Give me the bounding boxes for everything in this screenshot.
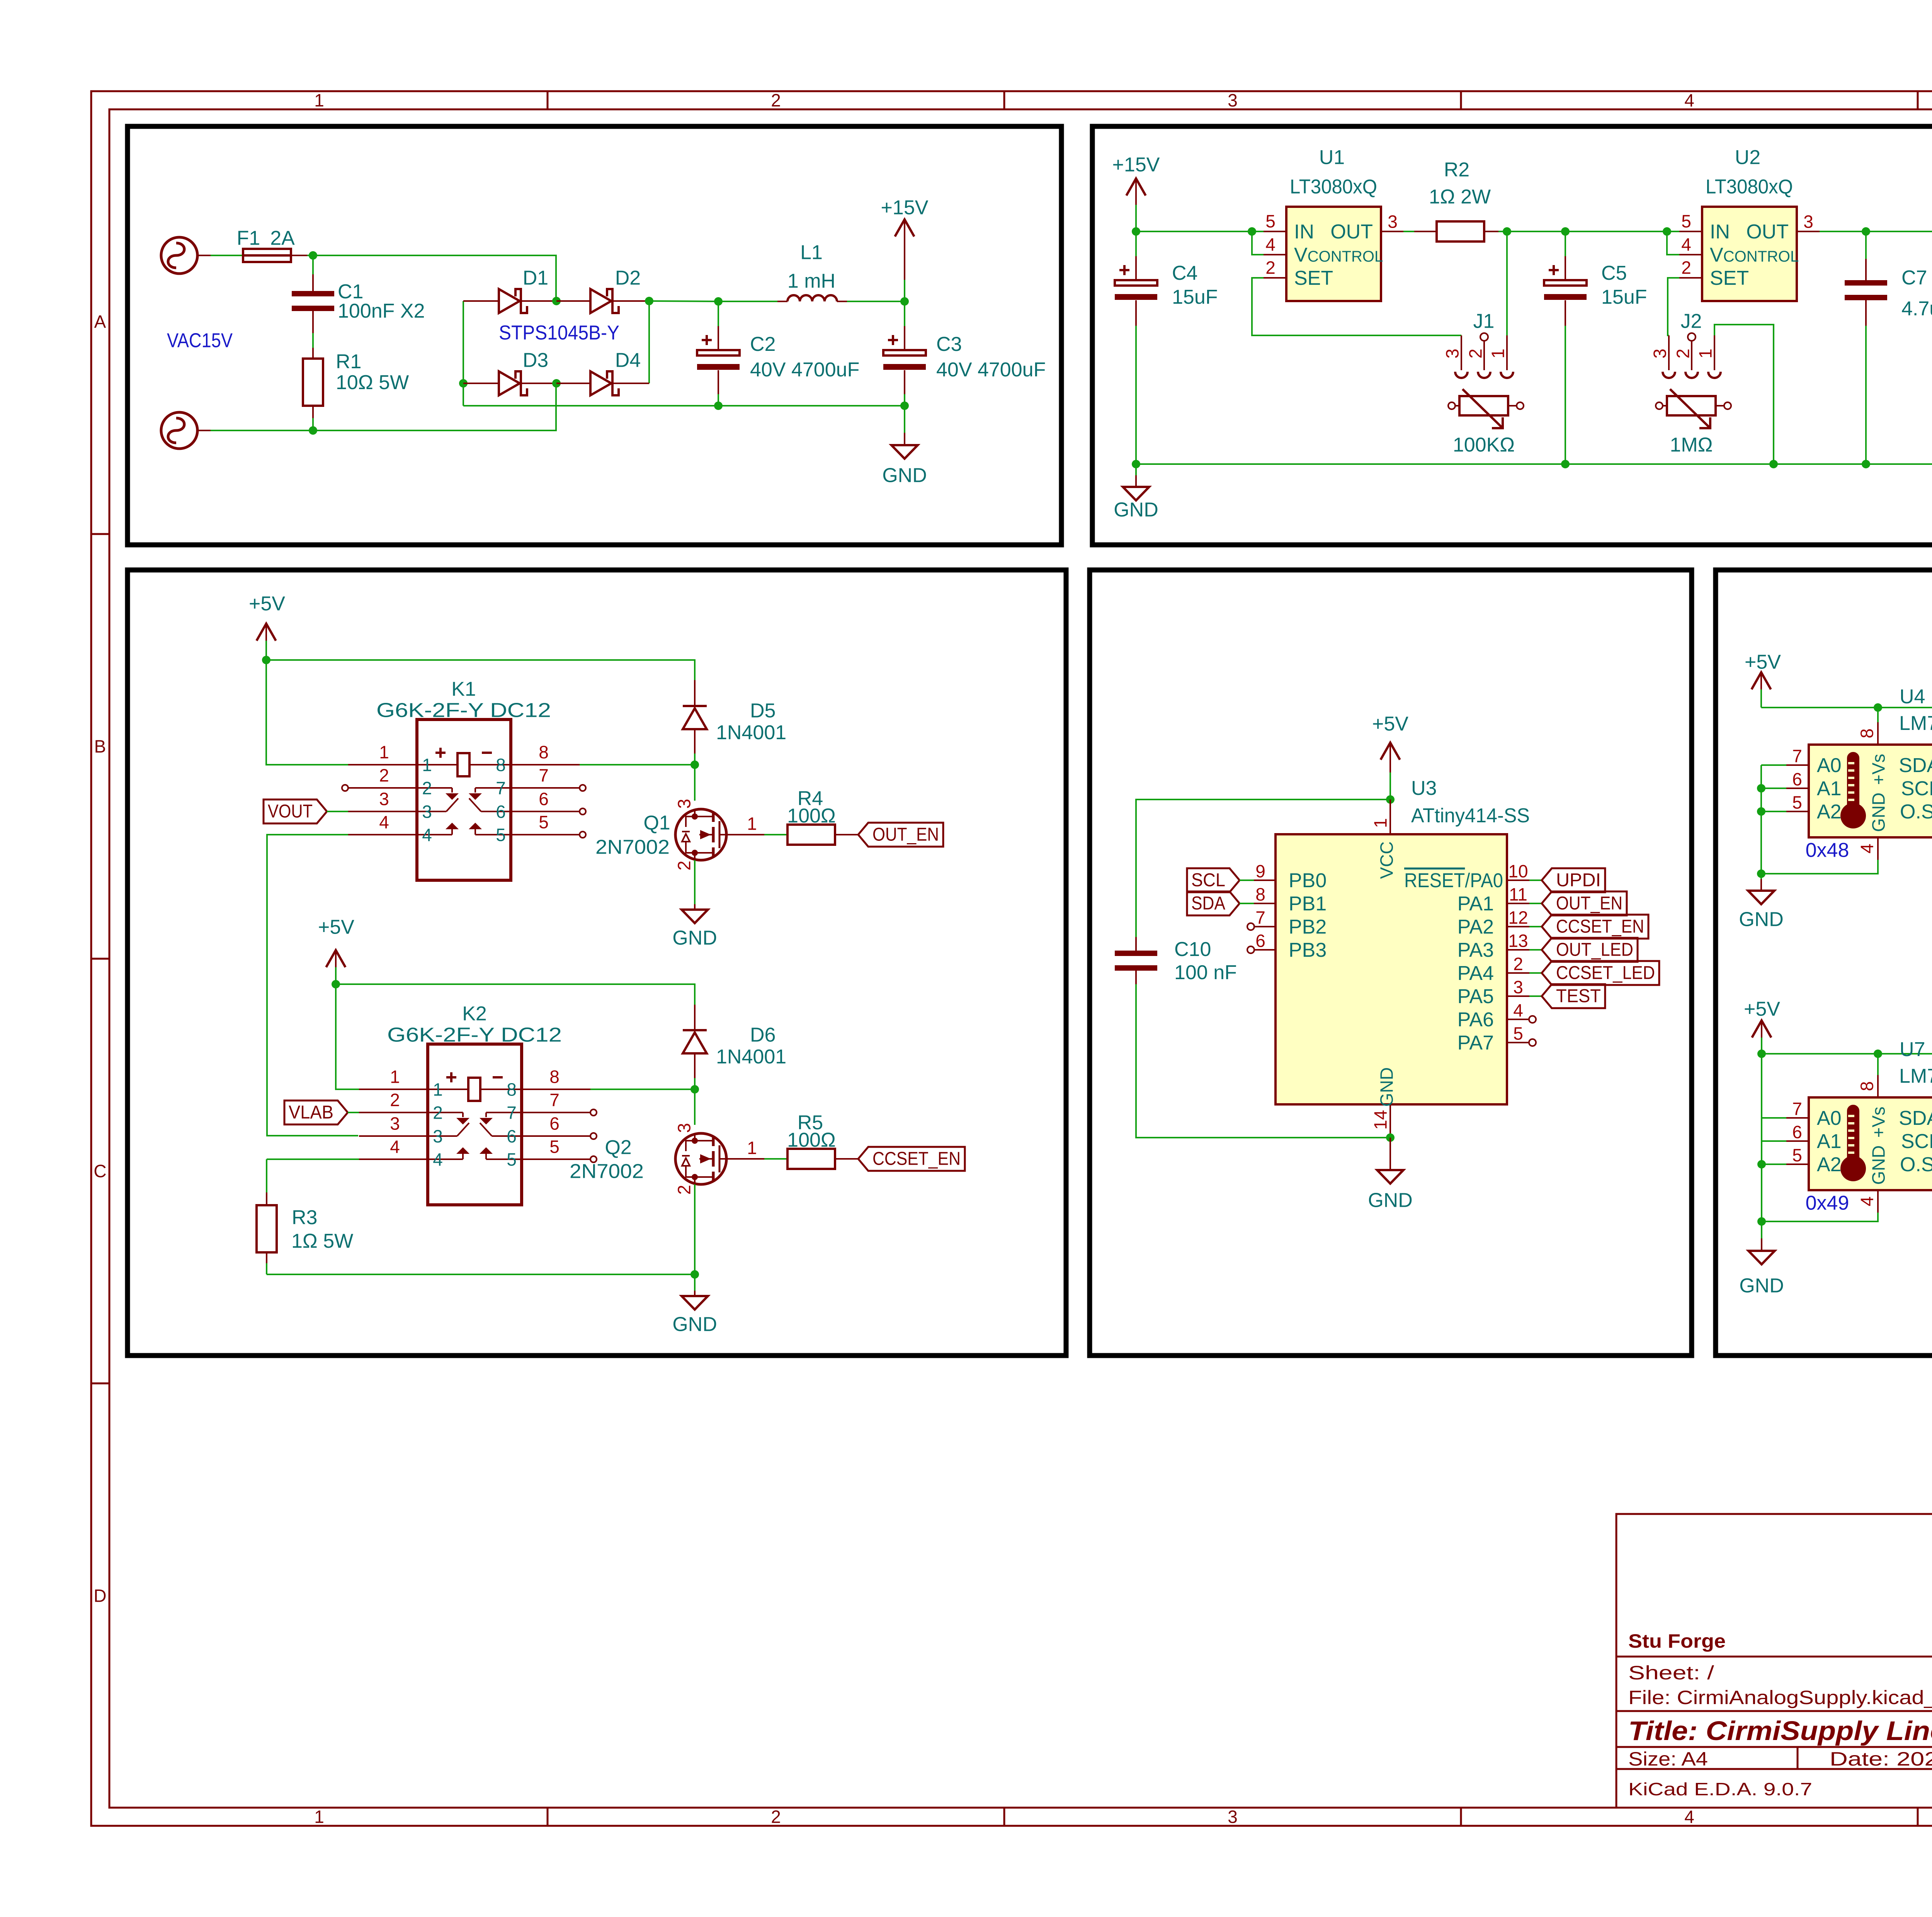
svg-text:3: 3 — [1650, 349, 1670, 359]
wire — [313, 383, 556, 430]
svg-text:GND: GND — [1739, 908, 1784, 931]
svg-text:3: 3 — [379, 789, 389, 809]
junction — [1757, 807, 1765, 816]
svg-text:PA7: PA7 — [1458, 1032, 1494, 1054]
svg-text:GND: GND — [1377, 1067, 1397, 1107]
svg-text:2: 2 — [1466, 349, 1486, 359]
svg-text:4: 4 — [379, 812, 389, 832]
svg-text:File: CirmiAnalogSupply.kicad_: File: CirmiAnalogSupply.kicad_sch — [1628, 1687, 1932, 1708]
junction — [309, 426, 317, 435]
svg-text:SET: SET — [1710, 267, 1749, 289]
power symbol +5V — [318, 916, 354, 984]
svg-text:0x48: 0x48 — [1806, 839, 1849, 862]
svg-text:5: 5 — [549, 1137, 560, 1157]
svg-text:3: 3 — [1803, 212, 1813, 232]
net label SCL — [1187, 868, 1240, 892]
svg-text:40V 4700uF: 40V 4700uF — [936, 359, 1046, 381]
svg-text:6: 6 — [496, 802, 506, 822]
svg-text:1: 1 — [747, 814, 757, 834]
svg-text:D1: D1 — [523, 267, 548, 289]
svg-text:7: 7 — [496, 778, 506, 798]
svg-text:C: C — [94, 1161, 106, 1181]
temperature sensor U7 LM75B — [1786, 1038, 1932, 1214]
svg-text:2: 2 — [1673, 349, 1693, 359]
wire — [336, 984, 695, 1005]
svg-text:D: D — [94, 1586, 106, 1606]
wire — [336, 984, 359, 1089]
svg-text:G6K-2F-Y DC12: G6K-2F-Y DC12 — [376, 699, 551, 722]
svg-text:Date: 2026-02-10: Date: 2026-02-10 — [1830, 1748, 1932, 1770]
svg-text:4: 4 — [1857, 1196, 1877, 1206]
svg-text:KiCad E.D.A. 9.0.7: KiCad E.D.A. 9.0.7 — [1628, 1779, 1812, 1799]
net label VOUT — [264, 799, 327, 823]
svg-text:3: 3 — [674, 799, 694, 809]
net label OUT_LED — [1542, 938, 1638, 962]
wire — [327, 811, 348, 812]
wire — [718, 301, 777, 302]
svg-text:1: 1 — [422, 755, 432, 775]
resistor R5 100R — [726, 1112, 858, 1169]
junction — [552, 297, 561, 305]
svg-text:LM75B: LM75B — [1899, 1065, 1932, 1087]
wire — [266, 1159, 267, 1192]
wire — [463, 405, 905, 407]
open pin circles K1 — [342, 785, 348, 791]
wire — [348, 1112, 359, 1113]
svg-text:6: 6 — [1255, 931, 1265, 951]
junction — [1503, 227, 1511, 236]
wire — [1136, 463, 1932, 465]
junction — [690, 760, 699, 769]
svg-text:14: 14 — [1371, 1110, 1391, 1129]
net label UPDI — [1542, 868, 1605, 892]
svg-text:1: 1 — [314, 90, 324, 111]
svg-text:1: 1 — [433, 1080, 443, 1100]
svg-text:3: 3 — [390, 1114, 400, 1134]
svg-text:CCSET_EN: CCSET_EN — [1556, 916, 1644, 937]
svg-text:3: 3 — [674, 1123, 694, 1133]
svg-text:GND: GND — [672, 927, 717, 949]
junction — [1248, 227, 1256, 236]
svg-text:7: 7 — [539, 765, 549, 786]
svg-text:OUT_EN: OUT_EN — [1556, 893, 1622, 913]
net label OUT_EN — [1542, 891, 1627, 915]
section box temperature sensors — [1716, 570, 1932, 1356]
wire — [590, 1089, 695, 1090]
svg-text:2: 2 — [422, 778, 432, 798]
svg-text:C3: C3 — [936, 333, 962, 356]
wire — [1136, 231, 1264, 232]
svg-text:Q2: Q2 — [605, 1136, 631, 1159]
junction — [332, 980, 340, 988]
svg-text:8: 8 — [1857, 1081, 1877, 1091]
net label CCSET_LED — [1542, 961, 1659, 985]
svg-text:VOUT: VOUT — [268, 801, 313, 822]
wire — [1667, 231, 1679, 255]
svg-text:PA3: PA3 — [1458, 939, 1494, 961]
svg-text:2: 2 — [771, 1807, 781, 1827]
svg-text:PB3: PB3 — [1289, 939, 1327, 961]
wire — [1762, 1140, 1786, 1142]
junction — [900, 401, 909, 410]
svg-text:F1: F1 — [237, 227, 260, 250]
svg-text:CCSET_LED: CCSET_LED — [1556, 963, 1655, 983]
wire — [267, 835, 358, 1136]
svg-text:GND: GND — [1869, 793, 1889, 832]
svg-text:1: 1 — [1696, 349, 1716, 359]
junction — [714, 401, 723, 410]
ground — [882, 406, 927, 487]
svg-text:OUT_EN: OUT_EN — [872, 824, 939, 845]
svg-text:2: 2 — [433, 1103, 443, 1123]
svg-text:15uF: 15uF — [1601, 286, 1647, 308]
svg-text:2A: 2A — [270, 227, 295, 250]
wire — [266, 660, 695, 680]
ground — [1114, 464, 1158, 521]
svg-text:TEST: TEST — [1556, 986, 1601, 1006]
svg-text:6: 6 — [539, 789, 549, 809]
svg-text:3: 3 — [433, 1126, 443, 1146]
diode D6 1N4001 — [683, 1005, 786, 1089]
wire — [211, 430, 313, 431]
junction — [1769, 460, 1778, 468]
svg-text:SET: SET — [1294, 267, 1333, 289]
svg-text:10Ω 5W: 10Ω 5W — [336, 371, 409, 394]
svg-text:UPDI: UPDI — [1556, 870, 1601, 890]
capacitor C1 100nF X2 — [292, 255, 425, 348]
wire — [649, 301, 718, 301]
svg-text:3: 3 — [1228, 1807, 1238, 1827]
svg-text:3: 3 — [1513, 977, 1523, 997]
svg-text:1: 1 — [747, 1138, 757, 1158]
svg-text:1Ω 2W: 1Ω 2W — [1429, 186, 1491, 208]
junction — [1874, 703, 1882, 712]
svg-text:2: 2 — [1681, 258, 1691, 278]
wire — [1877, 1054, 1879, 1075]
svg-text:PB0: PB0 — [1289, 869, 1327, 892]
svg-text:2: 2 — [1513, 954, 1523, 974]
svg-text:15uF: 15uF — [1172, 286, 1218, 308]
svg-text:100Ω: 100Ω — [787, 805, 836, 827]
svg-text:100KΩ: 100KΩ — [1453, 434, 1515, 456]
transistor Q1 2N7002 — [674, 799, 726, 871]
relay K1 G6K-2F-Y DC12 — [348, 678, 580, 880]
svg-text:5: 5 — [496, 825, 506, 845]
junction — [645, 297, 653, 305]
svg-text:8: 8 — [507, 1080, 517, 1100]
junction — [552, 379, 561, 388]
svg-text:1: 1 — [390, 1067, 400, 1087]
junction — [1132, 227, 1140, 236]
title block — [1616, 1514, 1932, 1808]
wire — [1529, 903, 1542, 904]
junction — [1757, 784, 1765, 793]
net label TEST — [1542, 984, 1605, 1008]
temperature sensor U4 LM75B — [1786, 685, 1932, 862]
svg-text:VAC15V: VAC15V — [167, 330, 233, 352]
wire — [1820, 231, 1932, 232]
junction — [1874, 1050, 1882, 1058]
svg-text:4: 4 — [1265, 235, 1276, 255]
relay K2 G6K-2F-Y DC12 — [359, 1003, 590, 1205]
svg-text:6: 6 — [1792, 769, 1802, 789]
net label CCSET_EN — [1542, 915, 1648, 939]
svg-text:GND: GND — [1368, 1189, 1413, 1212]
svg-text:1N4001: 1N4001 — [716, 1046, 786, 1068]
wire — [1507, 231, 1679, 232]
wire — [1240, 879, 1254, 881]
svg-text:PA4: PA4 — [1458, 962, 1494, 985]
svg-text:U3: U3 — [1411, 777, 1437, 799]
svg-text:G6K-2F-Y DC12: G6K-2F-Y DC12 — [387, 1024, 562, 1046]
section box MCU — [1090, 570, 1692, 1356]
svg-text:C10: C10 — [1174, 938, 1211, 961]
svg-text:1MΩ: 1MΩ — [1670, 434, 1713, 456]
svg-text:5: 5 — [1265, 211, 1276, 231]
wire — [1240, 903, 1254, 904]
svg-text:2: 2 — [379, 765, 389, 786]
svg-text:7: 7 — [1792, 1099, 1802, 1119]
wire — [267, 1158, 359, 1160]
junction — [900, 297, 909, 306]
svg-text:12: 12 — [1508, 908, 1528, 928]
svg-text:5: 5 — [1513, 1024, 1523, 1044]
svg-text:A2: A2 — [1817, 801, 1842, 823]
svg-text:OUT_LED: OUT_LED — [1556, 939, 1633, 960]
junction — [262, 656, 270, 664]
svg-text:8: 8 — [1857, 728, 1877, 738]
open pin circles K2 — [590, 1109, 597, 1116]
wire — [1252, 231, 1264, 255]
ground — [1368, 1138, 1413, 1212]
svg-text:+15V: +15V — [881, 197, 929, 219]
svg-text:2: 2 — [390, 1090, 400, 1110]
junction — [1386, 795, 1395, 804]
wire — [1529, 879, 1542, 881]
junction — [690, 1270, 699, 1279]
MCU U3 ATtiny414-SS — [1247, 777, 1536, 1138]
svg-text:4: 4 — [433, 1150, 443, 1170]
transistor Q2 2N7002 — [674, 1123, 726, 1195]
resistor R2 1R 2W — [1403, 159, 1507, 242]
svg-text:8: 8 — [549, 1067, 560, 1087]
ground — [672, 860, 717, 949]
svg-text:4: 4 — [1684, 90, 1694, 111]
wire — [1136, 799, 1390, 937]
svg-text:A1: A1 — [1817, 1130, 1842, 1153]
inductor L1 1mH — [718, 242, 905, 301]
diode D3 — [463, 349, 556, 395]
resistor R3 1R 5W — [257, 1192, 353, 1274]
wire — [291, 255, 307, 256]
wire — [211, 255, 243, 256]
svg-text:40V 4700uF: 40V 4700uF — [750, 359, 859, 381]
svg-text:A0: A0 — [1817, 754, 1842, 777]
capacitor C7 4.7uF — [1845, 231, 1932, 464]
wire — [1529, 972, 1542, 974]
diode D1 — [463, 267, 556, 313]
wire — [1761, 764, 1786, 766]
svg-text:SDA: SDA — [1899, 1107, 1932, 1129]
svg-text:Stu Forge: Stu Forge — [1628, 1630, 1726, 1652]
wire — [1529, 995, 1542, 997]
svg-text:100 nF: 100 nF — [1174, 961, 1237, 984]
junction — [1757, 1217, 1766, 1226]
svg-text:9: 9 — [1255, 861, 1265, 881]
svg-text:SDA: SDA — [1191, 893, 1225, 913]
svg-text:5: 5 — [1792, 793, 1802, 813]
wire — [694, 765, 696, 801]
junction — [1757, 869, 1765, 878]
wire — [1761, 811, 1786, 812]
capacitor C10 100nF — [1115, 799, 1390, 1138]
svg-text:GND: GND — [882, 464, 927, 487]
svg-text:PA6: PA6 — [1458, 1009, 1494, 1031]
svg-text:PA1: PA1 — [1458, 893, 1494, 915]
svg-text:L1: L1 — [800, 242, 823, 264]
capacitor C5 15uF — [1544, 231, 1647, 464]
svg-text:LT3080xQ: LT3080xQ — [1706, 176, 1793, 198]
junction — [1757, 1050, 1766, 1058]
svg-text:4: 4 — [1684, 1807, 1694, 1827]
wire — [694, 1184, 696, 1274]
wire — [1760, 765, 1762, 874]
svg-text:1Ω 5W: 1Ω 5W — [291, 1230, 353, 1252]
svg-text:Q1: Q1 — [643, 812, 670, 834]
svg-text:LT3080xQ: LT3080xQ — [1290, 176, 1377, 198]
svg-text:A0: A0 — [1817, 1107, 1842, 1129]
svg-text:2N7002: 2N7002 — [595, 836, 670, 859]
fuse F1 2A — [237, 227, 295, 262]
wire — [1761, 707, 1932, 708]
AC source V2 — [161, 412, 211, 449]
svg-text:11: 11 — [1509, 885, 1527, 905]
svg-text:ATtiny414-SS: ATtiny414-SS — [1411, 805, 1530, 827]
svg-text:OUT: OUT — [1330, 221, 1373, 243]
wire — [1762, 1117, 1786, 1119]
svg-text:1 mH: 1 mH — [787, 270, 835, 293]
svg-text:GND: GND — [1114, 499, 1158, 521]
svg-text:+5V: +5V — [1744, 998, 1780, 1021]
capacitor C4 15uF — [1115, 231, 1218, 464]
power symbol +15V — [881, 197, 929, 301]
wire — [1877, 708, 1879, 722]
svg-text:4: 4 — [1857, 844, 1877, 854]
svg-text:GND: GND — [1739, 1275, 1784, 1297]
power symbol +5V — [1744, 998, 1780, 1054]
wire — [694, 1089, 696, 1125]
svg-text:5: 5 — [507, 1150, 517, 1170]
svg-text:A: A — [94, 312, 106, 332]
svg-text:Title: CirmiSupply Linear 10: Title: CirmiSupply Linear 10 — [1628, 1716, 1932, 1746]
svg-text:PB2: PB2 — [1289, 916, 1327, 938]
junction — [1862, 460, 1870, 468]
svg-text:2: 2 — [674, 861, 694, 871]
wire — [1506, 231, 1508, 335]
wire — [1762, 1053, 1932, 1055]
wire — [1761, 860, 1878, 874]
wire — [1761, 1054, 1762, 1221]
svg-text:2N7002: 2N7002 — [570, 1160, 644, 1183]
wire — [1136, 984, 1390, 1138]
AC source V1 — [161, 237, 211, 274]
wire — [267, 1274, 695, 1275]
section box regulators — [1092, 126, 1932, 545]
potentiometer 100KΩ — [1448, 389, 1524, 456]
junction — [1862, 227, 1870, 236]
junction — [309, 251, 317, 260]
net label SDA — [1187, 891, 1240, 915]
svg-text:A2: A2 — [1817, 1153, 1842, 1176]
ground — [672, 1274, 717, 1336]
power symbol +15V — [1112, 154, 1160, 231]
wire — [847, 301, 905, 302]
svg-text:Size: A4: Size: A4 — [1628, 1748, 1708, 1770]
svg-text:0x49: 0x49 — [1806, 1192, 1849, 1214]
section box AC input — [128, 126, 1061, 545]
svg-text:C5: C5 — [1601, 262, 1627, 284]
net label CCSET_EN — [858, 1147, 965, 1171]
wire — [1252, 278, 1461, 335]
svg-text:2: 2 — [674, 1185, 694, 1195]
svg-text:U1: U1 — [1319, 146, 1345, 169]
svg-text:O.S.: O.S. — [1900, 1153, 1932, 1176]
svg-text:D6: D6 — [750, 1024, 776, 1046]
svg-text:4: 4 — [422, 825, 432, 845]
wire — [1668, 278, 1679, 335]
svg-text:4.7uF: 4.7uF — [1901, 298, 1932, 320]
svg-text:CCSET_EN: CCSET_EN — [872, 1148, 961, 1169]
svg-text:D4: D4 — [615, 349, 641, 372]
power symbol +5V — [249, 593, 285, 660]
svg-text:3: 3 — [1388, 212, 1398, 232]
svg-text:D3: D3 — [523, 349, 548, 372]
svg-text:3: 3 — [1442, 349, 1463, 359]
svg-text:2: 2 — [771, 90, 781, 111]
wire — [307, 255, 556, 301]
jumper J2 — [1650, 310, 1721, 378]
svg-text:8: 8 — [496, 755, 506, 775]
svg-text:VLAB: VLAB — [289, 1102, 333, 1123]
svg-text:PA5: PA5 — [1458, 985, 1494, 1008]
regulator U2 LT3080xQ — [1679, 146, 1820, 301]
svg-text:C2: C2 — [750, 333, 776, 356]
wire — [1529, 926, 1542, 927]
svg-text:4: 4 — [1513, 1000, 1523, 1021]
svg-text:R1: R1 — [336, 350, 361, 373]
svg-text:LM75B: LM75B — [1899, 712, 1932, 735]
svg-text:GND: GND — [1869, 1145, 1889, 1185]
svg-text:D5: D5 — [750, 700, 776, 722]
net label OUT_EN — [858, 823, 943, 847]
regulator U1 LT3080xQ — [1264, 146, 1404, 301]
svg-text:10: 10 — [1508, 861, 1528, 881]
svg-text:5: 5 — [539, 812, 549, 832]
svg-text:D2: D2 — [615, 267, 641, 289]
svg-text:4: 4 — [1681, 235, 1691, 255]
svg-text:4: 4 — [390, 1137, 400, 1157]
diode D4 — [556, 349, 649, 395]
svg-text:1N4001: 1N4001 — [716, 721, 786, 744]
svg-text:13: 13 — [1508, 931, 1528, 951]
potentiometer 1MΩ — [1656, 389, 1731, 456]
svg-text:SCL: SCL — [1901, 777, 1932, 800]
jumper J1 — [1442, 310, 1513, 378]
svg-text:IN: IN — [1294, 221, 1314, 243]
svg-text:B: B — [94, 737, 106, 757]
ground — [1739, 1221, 1784, 1297]
svg-text:100Ω: 100Ω — [787, 1129, 836, 1152]
